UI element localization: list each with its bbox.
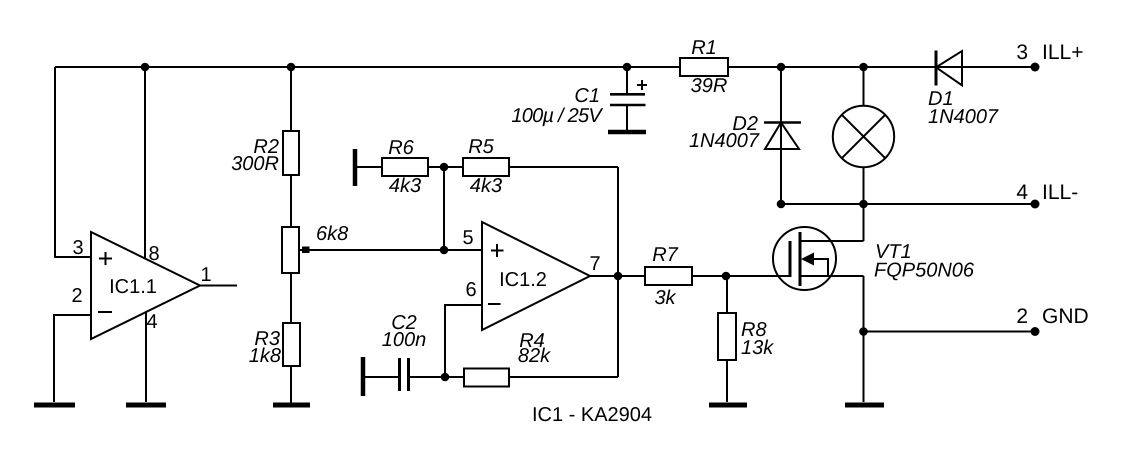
svg-text:3: 3	[72, 237, 83, 259]
svg-text:82k: 82k	[518, 345, 551, 367]
svg-text:R5: R5	[468, 136, 494, 158]
svg-text:FQP50N06: FQP50N06	[874, 260, 975, 282]
svg-text:6k8: 6k8	[316, 223, 348, 245]
svg-text:100n: 100n	[382, 329, 427, 351]
svg-text:ILL+: ILL+	[1042, 41, 1083, 64]
svg-text:R7: R7	[652, 244, 678, 266]
svg-text:4: 4	[1016, 181, 1028, 204]
svg-text:2: 2	[71, 285, 82, 307]
svg-text:1N4007: 1N4007	[689, 130, 760, 152]
svg-text:8: 8	[148, 243, 159, 265]
svg-text:2: 2	[1016, 305, 1028, 328]
svg-text:GND: GND	[1042, 305, 1089, 328]
svg-text:IC1.1: IC1.1	[109, 276, 157, 298]
svg-text:7: 7	[589, 253, 600, 275]
svg-text:3k: 3k	[654, 287, 676, 309]
svg-text:39R: 39R	[691, 75, 728, 97]
svg-text:ILL-: ILL-	[1042, 181, 1078, 204]
svg-text:13k: 13k	[741, 337, 774, 359]
svg-text:R1: R1	[691, 37, 717, 59]
svg-text:5: 5	[462, 227, 473, 249]
svg-text:IC1.2: IC1.2	[499, 269, 547, 291]
svg-text:1: 1	[200, 264, 211, 286]
svg-text:4k3: 4k3	[470, 175, 502, 197]
svg-text:300R: 300R	[231, 153, 279, 175]
svg-text:3: 3	[1016, 41, 1028, 64]
svg-text:R6: R6	[388, 137, 414, 159]
svg-text:1N4007: 1N4007	[928, 106, 999, 128]
svg-text:4k3: 4k3	[389, 175, 421, 197]
svg-text:1k8: 1k8	[249, 345, 281, 367]
svg-text:4: 4	[146, 311, 157, 333]
svg-text:100µ / 25V: 100µ / 25V	[511, 105, 603, 127]
svg-text:6: 6	[465, 279, 476, 301]
svg-text:C1: C1	[574, 85, 600, 107]
svg-text:IC1 - KA2904: IC1 - KA2904	[532, 404, 652, 426]
